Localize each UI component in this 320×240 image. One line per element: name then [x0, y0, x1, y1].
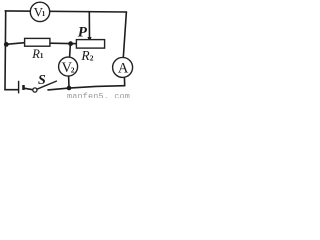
svg-text:2: 2 [90, 53, 94, 62]
wire top horizontal [5, 11, 126, 12]
wire left vertical [4, 11, 7, 90]
svg-text:P: P [78, 25, 88, 41]
svg-text:1: 1 [40, 51, 44, 60]
arrowhead of wiper P [87, 37, 91, 42]
wire V2 bottom [68, 76, 70, 88]
switch pivot circle [33, 88, 37, 92]
svg-text:A: A [118, 61, 129, 77]
wire middle right (R1 to R2) [50, 42, 77, 45]
wire bottom left (to battery) [5, 89, 18, 91]
wire wiper branch vertical [88, 12, 90, 38]
voltmeter V1 circle [30, 2, 49, 21]
svg-text:1: 1 [42, 10, 46, 18]
voltmeter V2 circle [59, 57, 78, 76]
wire V2 top [69, 44, 72, 58]
svg-text:S: S [38, 73, 46, 88]
switch blade [37, 81, 56, 89]
ammeter A circle [113, 57, 133, 77]
wire right vertical [123, 12, 126, 58]
node dot middle (R2/V2) [68, 41, 73, 46]
wire battery to switch [25, 88, 33, 89]
rheostat R2 box [76, 40, 104, 49]
wire ammeter bottom [123, 77, 125, 86]
resistor R1 box [25, 38, 50, 46]
battery short plate [22, 85, 25, 90]
node dot bottom (V2) [67, 86, 72, 91]
wire middle left (node to R1) [6, 43, 24, 45]
svg-text:manfen5. com: manfen5. com [67, 91, 130, 98]
svg-text:2: 2 [71, 66, 75, 75]
node dot left [4, 42, 9, 47]
wire bottom right [48, 86, 125, 90]
battery long plate [18, 81, 20, 94]
